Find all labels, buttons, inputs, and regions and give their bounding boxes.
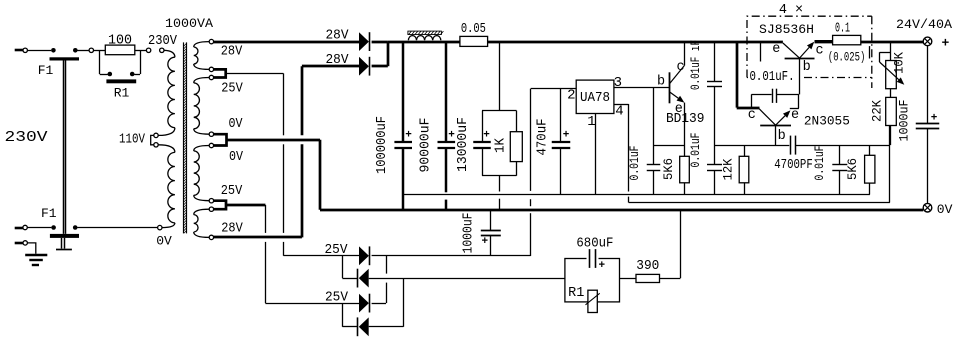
svg-text:1: 1 bbox=[587, 114, 595, 130]
svg-text:e: e bbox=[772, 42, 780, 57]
svg-text:28V: 28V bbox=[326, 28, 350, 43]
svg-text:100000uF: 100000uF bbox=[375, 116, 390, 174]
svg-text:c: c bbox=[676, 60, 684, 75]
svg-text:25V: 25V bbox=[325, 290, 349, 305]
svg-text:0.01uF: 0.01uF bbox=[627, 146, 642, 181]
svg-text:+: + bbox=[481, 236, 488, 248]
svg-text:5K6: 5K6 bbox=[661, 158, 676, 180]
svg-text:b: b bbox=[657, 74, 665, 89]
svg-text:28V: 28V bbox=[221, 45, 243, 60]
svg-text:24V/40A: 24V/40A bbox=[896, 17, 952, 32]
svg-text:4: 4 bbox=[615, 104, 623, 120]
svg-text:230V: 230V bbox=[148, 34, 178, 49]
svg-text:e: e bbox=[791, 108, 799, 123]
svg-text:0V: 0V bbox=[156, 234, 172, 249]
svg-text:c: c bbox=[748, 108, 756, 123]
svg-text:R1: R1 bbox=[114, 86, 130, 101]
svg-text:1000uF: 1000uF bbox=[462, 213, 477, 254]
svg-text:4700PF: 4700PF bbox=[774, 158, 813, 173]
svg-text:UA78: UA78 bbox=[580, 91, 610, 106]
svg-text:0V: 0V bbox=[229, 117, 244, 132]
svg-text:2N3055: 2N3055 bbox=[804, 113, 850, 128]
svg-text:SJ8536H: SJ8536H bbox=[759, 22, 814, 37]
svg-text:100: 100 bbox=[108, 34, 132, 49]
svg-text:4 ×: 4 × bbox=[779, 3, 803, 18]
svg-text:0.1: 0.1 bbox=[835, 22, 850, 37]
svg-text:230V: 230V bbox=[5, 129, 48, 146]
svg-text:25V: 25V bbox=[221, 82, 243, 97]
svg-text:5K6: 5K6 bbox=[845, 158, 860, 180]
svg-text:390: 390 bbox=[636, 259, 659, 274]
svg-text:b: b bbox=[778, 129, 786, 144]
svg-text:+: + bbox=[405, 130, 412, 142]
svg-text:+: + bbox=[563, 130, 570, 142]
svg-text:0.01uF: 0.01uF bbox=[812, 146, 827, 181]
svg-text:+: + bbox=[483, 130, 490, 142]
svg-text:b: b bbox=[803, 60, 811, 75]
svg-text:c: c bbox=[815, 44, 823, 59]
svg-text:(0.025): (0.025) bbox=[828, 51, 866, 65]
svg-text:470uF: 470uF bbox=[536, 119, 551, 156]
svg-text:1K: 1K bbox=[494, 137, 509, 153]
svg-text:0V: 0V bbox=[937, 202, 953, 217]
svg-text:+: + bbox=[931, 113, 938, 125]
svg-text:1000uF: 1000uF bbox=[897, 100, 912, 142]
svg-text:0V: 0V bbox=[229, 150, 244, 165]
svg-text:0.01uF: 0.01uF bbox=[688, 133, 703, 168]
svg-text:0.01uF ıF: 0.01uF ıF bbox=[688, 40, 703, 90]
svg-text:10K: 10K bbox=[892, 52, 907, 74]
svg-text:25V: 25V bbox=[221, 184, 243, 199]
svg-text:28V: 28V bbox=[221, 222, 243, 237]
svg-text:+: + bbox=[942, 35, 950, 50]
svg-text:3: 3 bbox=[614, 75, 622, 91]
svg-text:28V: 28V bbox=[326, 53, 350, 68]
svg-text:0.01uF.: 0.01uF. bbox=[750, 70, 795, 85]
svg-text:90000uF: 90000uF bbox=[419, 118, 434, 173]
svg-text:R1: R1 bbox=[568, 286, 584, 301]
svg-text:+: + bbox=[598, 260, 605, 272]
svg-text:+: + bbox=[448, 130, 455, 142]
svg-text:680uF: 680uF bbox=[576, 236, 613, 251]
svg-text:1000VA: 1000VA bbox=[165, 16, 213, 31]
svg-text:13000uF: 13000uF bbox=[456, 117, 471, 172]
svg-text:22K: 22K bbox=[870, 100, 885, 122]
svg-text:2: 2 bbox=[567, 88, 575, 104]
svg-text:F1: F1 bbox=[38, 63, 54, 78]
svg-text:25V: 25V bbox=[325, 243, 349, 258]
svg-text:110V: 110V bbox=[119, 132, 146, 147]
svg-text:12K: 12K bbox=[721, 158, 736, 180]
svg-text:F1: F1 bbox=[41, 206, 57, 221]
svg-text:BD139: BD139 bbox=[666, 112, 705, 127]
svg-text:0.05: 0.05 bbox=[461, 22, 486, 37]
